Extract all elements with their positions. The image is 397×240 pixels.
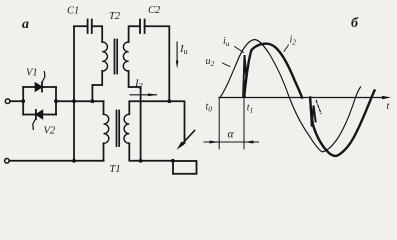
transformer T1 right winding	[124, 114, 129, 143]
node C2/main junction	[167, 99, 171, 103]
spike i_ign second (reignition)	[310, 98, 316, 127]
svg-text:I2: I2	[134, 78, 143, 91]
curve i2 (thick) first half	[244, 44, 302, 98]
svg-text:Iи: Iи	[179, 43, 188, 56]
thyristor V1	[35, 83, 42, 92]
svg-text:б: б	[351, 16, 359, 31]
spike i_ign first	[243, 55, 246, 96]
wire T2 right bottom lead crossing down	[129, 71, 141, 161]
node T2 tap	[91, 99, 95, 103]
t1 extension line	[243, 98, 245, 150]
svg-text:а: а	[22, 17, 29, 32]
T1 core	[117, 111, 120, 147]
leader i_ign	[235, 47, 244, 53]
svg-text:t: t	[387, 101, 390, 112]
node riser/middle	[72, 99, 76, 103]
wire bottom branch	[23, 114, 56, 116]
svg-text:t0: t0	[206, 102, 213, 114]
workpiece box	[173, 161, 197, 174]
arc arrow (spark gap)	[177, 131, 195, 150]
axis t	[219, 96, 391, 100]
wire top left	[74, 25, 88, 27]
node bottom T2 lead	[139, 159, 143, 163]
dashed continuation at reignition	[316, 101, 321, 114]
transformer T2 left winding	[102, 42, 107, 71]
current arrow I2	[130, 93, 157, 96]
T2 core	[115, 40, 118, 74]
svg-text:i2: i2	[290, 35, 297, 47]
wire T1 left bottom lead	[103, 143, 105, 161]
wire terminal to thyristor block	[10, 100, 23, 102]
transformer T2 right winding	[123, 42, 128, 71]
leader u2	[223, 63, 230, 67]
svg-text:α: α	[228, 129, 235, 141]
capacitor C1	[88, 20, 92, 34]
thyristor block frame (left/right risers)	[23, 87, 56, 115]
svg-text:T1: T1	[110, 164, 121, 175]
thyristor V2	[36, 110, 43, 119]
node bottom box	[171, 159, 175, 163]
svg-text:C2: C2	[148, 5, 161, 16]
wire C1 to T2	[92, 26, 102, 42]
svg-text:u2: u2	[206, 56, 215, 68]
t0 extension line	[218, 98, 220, 150]
current arrow Iw	[176, 42, 179, 69]
svg-text:iи: iи	[223, 36, 230, 48]
wire C2 to right riser	[145, 26, 170, 101]
gate V2	[33, 119, 36, 130]
svg-text:C1: C1	[67, 6, 79, 17]
curve i2 (thick) second half	[310, 91, 374, 156]
node left of thyristor block	[21, 99, 25, 103]
capacitor C2	[140, 20, 145, 34]
svg-text:V2: V2	[44, 126, 56, 137]
gate V1	[42, 72, 45, 83]
curve u2 (thin sine)	[220, 40, 361, 152]
wire T2 right top lead	[129, 26, 140, 42]
transformer T1 left winding	[104, 114, 109, 143]
dimension alpha line	[204, 140, 259, 143]
wire top branch	[23, 86, 56, 88]
wire T2 left bottom lead step to tap node	[92, 71, 102, 101]
wire main middle	[56, 100, 104, 102]
wire bottom	[9, 160, 103, 162]
svg-text:V1: V1	[26, 68, 38, 79]
svg-text:t1: t1	[247, 103, 254, 115]
terminal bottom-left	[5, 159, 10, 164]
terminal top-left	[5, 99, 10, 104]
leader i2	[284, 45, 289, 52]
svg-text:T2: T2	[109, 11, 121, 22]
wire T1 left top lead	[103, 101, 105, 114]
wire left riser	[73, 26, 75, 161]
node right of thyristor block	[54, 99, 58, 103]
node bottom riser	[72, 159, 76, 163]
wire T1 right bottom lead	[129, 143, 173, 161]
wire T1 right top lead to arc	[129, 101, 184, 143]
